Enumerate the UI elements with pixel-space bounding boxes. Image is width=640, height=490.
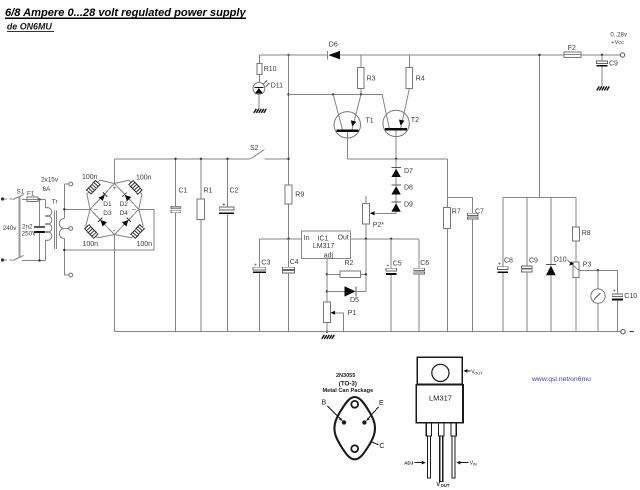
capacitor 2n2 vertical wires [39,200,41,261]
svg-text:D3: D3 [103,210,112,217]
node rail C1 [174,158,176,160]
svg-text:T2: T2 [411,117,419,124]
resistor R3 [358,55,365,94]
wire secondary to bridge AC left [64,208,90,210]
svg-text:D9: D9 [404,202,413,209]
svg-text:D7: D7 [404,168,413,175]
node rail R1 [200,158,202,160]
bridge polarity marks [94,185,137,235]
capacitor C9 mid [522,197,533,331]
diode D2 [122,192,131,201]
node rail C2 [226,158,228,160]
svg-text:S2: S2 [250,145,259,152]
potentiometer P2 [362,196,374,239]
transformer terminal bottom [64,273,72,277]
TO-220 leg left [426,423,431,478]
node secondary bottom branch [63,249,65,251]
svg-text:F1: F1 [27,191,35,198]
capacitor 100n top-left [87,181,100,195]
TO-3 pin B dot [342,420,346,424]
wire adj pin vertical [326,259,328,302]
svg-text:100n: 100n [137,241,153,248]
svg-text:C4: C4 [290,259,299,266]
svg-text:250V: 250V [22,231,38,238]
labels top area [179,42,425,230]
wire emitter bus y158 [347,158,447,160]
svg-text:Out: Out [338,235,349,242]
svg-text:C9: C9 [609,61,618,68]
svg-text:C6: C6 [420,260,429,267]
title [5,7,246,19]
svg-text:OUT: OUT [474,371,483,375]
svg-text:6A: 6A [43,186,52,193]
label VIN arrow [456,461,477,467]
svg-text:LM317: LM317 [313,243,335,250]
wire rail right of S2 [265,158,289,160]
node F1/C junction [38,198,40,200]
switch S1 blades and coupling bar [13,195,24,261]
diode D4 [122,218,131,227]
svg-text:R10: R10 [264,66,277,73]
capacitor C2 electrolytic [219,159,234,332]
svg-text:D2: D2 [120,201,129,208]
svg-text:R1: R1 [204,188,213,195]
svg-text:C9: C9 [529,258,538,265]
svg-text:IC1: IC1 [318,236,329,243]
snubber cap path top-right [114,180,141,209]
svg-text:+: + [254,263,257,269]
svg-text:100n: 100n [136,175,152,182]
wire In pin [259,238,301,240]
wire secondary bottom to bridge AC right [64,209,154,250]
svg-text:D1: D1 [103,201,112,208]
snubber cap path bottom-left [86,209,115,238]
svg-text:E: E [379,400,384,407]
ground below D11 [254,109,266,113]
svg-text:adj: adj [324,253,334,260]
snubber cap path bottom-right [115,209,144,238]
transformer Tr secondary [59,184,64,275]
node rail x288 [287,158,289,160]
svg-text:de ON6MU: de ON6MU [7,21,52,31]
resistor R8 [573,197,580,262]
svg-text:+Vcc: +Vcc [611,40,624,46]
mains bottom terminal + dashed lead [1,258,13,261]
svg-text:C1: C1 [179,188,188,195]
node P1 bottom bus [326,331,328,333]
potentiometer P1 [324,302,344,332]
node In R9 junction [287,238,289,240]
diode D7 [391,159,400,177]
label C with leader [372,442,385,450]
svg-text:LM317: LM317 [429,393,452,402]
capacitor 2n2 plates [34,227,45,232]
output labels [610,32,628,46]
node base bus x288 [287,93,289,95]
svg-text:T1: T1 [366,118,374,125]
svg-text:R4: R4 [416,76,425,83]
label E with leader [366,400,384,421]
svg-text:~: ~ [94,205,99,214]
svg-text:2N3055: 2N3055 [336,373,355,379]
capacitor C10 [612,294,623,332]
svg-text:C5: C5 [393,261,402,268]
fuse F1 [27,197,46,202]
capacitor 100n top-right [129,181,142,195]
wire right distribution [503,55,576,197]
node emitter bus D7 chain [395,158,397,160]
svg-text:+: + [222,202,226,209]
fuse F2 [564,52,581,57]
wire R9 to IC1 In [288,204,290,239]
svg-text:D4: D4 [120,210,129,217]
TO-3 pin E dot [362,420,366,424]
IC1 texts [304,235,349,260]
op-amp-style regulator box IC1 [301,231,350,259]
wire bottom bus [115,331,621,333]
diode D3 [98,218,107,227]
TO-220 tab [417,357,462,384]
svg-text:ADJ: ADJ [404,461,414,466]
svg-text:100n: 100n [82,174,98,181]
node base bus R3 [360,93,362,95]
node base bus T1 collector [332,93,334,95]
wire bottom mains to transformer [22,260,46,262]
svg-text:S1: S1 [17,189,25,196]
switch S2 [251,150,265,159]
node Out C5 [390,238,392,240]
resistor R10 [257,55,262,83]
subtitle [7,21,54,31]
mid/right labels [254,45,637,317]
svg-text:Metal Can Package: Metal Can Package [323,388,374,394]
mains top terminal + dashed lead [1,197,13,200]
TO-220 hole [432,364,449,381]
ground below C9 output [597,86,610,90]
transformer terminal top [64,182,72,186]
label VOUT bottom [436,482,449,488]
svg-text:C8: C8 [504,258,513,265]
svg-text:P2*: P2* [373,222,385,229]
transformer Tr primary [46,200,52,261]
svg-text:F2: F2 [568,45,576,52]
svg-text:P3: P3 [583,262,592,269]
capacitor C4 [282,239,294,332]
capacitor C5 [386,239,397,332]
transistor T2 [382,89,409,159]
wire top mains to transformer [38,199,46,201]
svg-text:+: + [113,185,117,192]
svg-text:R7: R7 [452,209,461,216]
capacitor C9 output [597,55,608,86]
svg-text:6/8 Ampere 0...28 volt regulat: 6/8 Ampere 0...28 volt regulated power s… [5,7,246,19]
node Out P2 [365,238,367,240]
svg-text:~: ~ [132,205,137,214]
wire main vertical x288 [288,55,290,185]
svg-text:D5: D5 [350,297,359,304]
TO-3 mounting hole bottom [351,445,358,452]
svg-text:C3: C3 [261,260,270,267]
label B with leader [322,400,343,422]
TO-220 leg middle [439,423,444,482]
TO-220 leg right [451,423,456,478]
svg-text:+: + [498,262,501,268]
resistor R4 [406,55,413,89]
svg-text:(TO-3): (TO-3) [339,380,357,387]
ground at bottom bus [322,335,335,339]
svg-text:240v: 240v [3,225,18,232]
node adj D5 [326,290,328,292]
diode D5 [327,286,366,296]
wire Out pin [350,238,419,240]
svg-text:0..28v: 0..28v [610,32,628,39]
svg-text:R8: R8 [582,230,591,237]
TO-3 can outline [334,397,375,459]
TO-3 mounting hole top [351,401,358,408]
wire bridge minus to bottom bus [114,235,116,332]
resistor R7 with feed [444,159,451,332]
capacitor C6 [414,239,425,332]
node meter junction [597,269,599,271]
node secondary top branch [63,208,65,210]
wire rectified rail [114,158,250,160]
svg-text:OUT: OUT [441,483,450,488]
capacitor 100n bottom-right [131,225,144,239]
node top bus x288 [287,54,289,56]
diode D1 [98,192,107,200]
diode D8 [391,177,400,195]
wire bridge plus to rail [113,159,115,184]
bridge diamond edges [90,184,139,235]
wire P2 bottom through Out to D5 [365,239,367,292]
node R2 P2 vertical [365,273,367,275]
diode D9 [391,195,400,212]
svg-text:Tr: Tr [52,198,59,205]
svg-text:D11: D11 [271,83,283,90]
capacitor 100n bottom-left [85,225,98,239]
wire D9 to P2 wiper [375,212,396,214]
resistor R2 [327,271,366,278]
svg-text:IN: IN [473,463,477,467]
minus sign output [630,331,635,333]
svg-text:B: B [322,400,327,407]
svg-text:C: C [379,443,384,450]
svg-text:+: + [387,263,390,269]
package 2N3055 texts [323,373,374,394]
svg-text:P1: P1 [348,310,357,317]
potentiometer P3 [567,260,579,332]
node top bus C9 [601,54,603,56]
svg-text:In: In [304,235,310,242]
svg-text:C10: C10 [624,293,637,300]
capacitor C3 [253,239,266,332]
snubber cap path top-left [87,180,115,209]
label ADJ arrow [404,461,426,466]
diode D6 [328,51,341,60]
capacitor C8 [498,197,509,331]
terminal minus output [621,330,625,334]
transformer labels [3,177,59,238]
meter M [591,270,605,331]
label Vout tab arrow [463,369,483,375]
diode D10 [546,197,556,331]
resistor R1 [197,159,204,332]
LED D11 [253,80,270,109]
MAIN WIRES GROUP [1,159,154,332]
transistor T1 [333,94,361,158]
svg-text:D6: D6 [329,42,338,49]
svg-text:www.qsl.net/on6mu: www.qsl.net/on6mu [531,376,591,383]
svg-text:C7: C7 [475,209,484,216]
svg-text:R2: R2 [345,260,354,267]
svg-text:R3: R3 [367,76,376,83]
wire base bus y94 [289,93,383,95]
node top bus x539 [538,54,540,56]
node bottom junction [38,259,40,261]
wire S1 to F1 [22,199,27,201]
svg-text:2n2: 2n2 [22,224,33,231]
wire top bus [259,54,327,56]
svg-text:+: + [613,289,616,295]
resistor R9 [285,185,292,204]
svg-text:100n: 100n [83,241,99,248]
TO-220 body [416,385,463,423]
capacitor C1 [171,159,181,332]
capacitor C7 with feed [447,197,478,331]
svg-text:R9: R9 [295,192,304,199]
wire P3 wiper to C10 [579,270,618,294]
transformer core [54,211,56,250]
node adj R2 [326,273,328,275]
svg-text:D8: D8 [404,185,413,192]
svg-text:C2: C2 [230,188,239,195]
svg-text:2x15v: 2x15v [41,177,59,184]
labels D1 D2 D3 D4 [103,201,128,217]
transformer terminal middle (center tap) [64,227,72,231]
terminal plus output [620,53,624,57]
svg-text:D10: D10 [554,257,567,264]
